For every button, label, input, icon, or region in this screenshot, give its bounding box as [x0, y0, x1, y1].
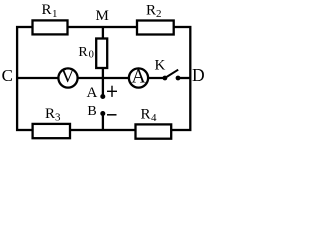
- minus sign: [107, 114, 117, 116]
- svg-text:R: R: [141, 106, 151, 122]
- svg-text:R: R: [45, 106, 55, 122]
- svg-text:1: 1: [52, 8, 58, 20]
- ammeter A: [129, 68, 148, 87]
- svg-text:R: R: [42, 2, 52, 18]
- wire M down to node A: [102, 27, 104, 97]
- svg-text:K: K: [155, 58, 166, 74]
- resistor R2: [137, 21, 174, 35]
- svg-text:2: 2: [156, 8, 162, 20]
- node B: [100, 111, 105, 116]
- resistor R3: [33, 124, 70, 138]
- svg-text:0: 0: [89, 50, 94, 61]
- svg-text:A: A: [87, 85, 98, 101]
- resistor R4: [136, 124, 172, 138]
- svg-text:M: M: [96, 8, 109, 24]
- node A: [100, 94, 105, 99]
- wire outer frame: [17, 27, 190, 130]
- wire C to switch left contact: [17, 77, 165, 79]
- svg-text:3: 3: [55, 112, 61, 124]
- svg-text:R: R: [146, 3, 156, 19]
- svg-text:B: B: [87, 104, 96, 119]
- plus sign: [107, 90, 117, 92]
- wire node B down to bottom: [102, 114, 104, 131]
- resistor R1: [33, 20, 68, 34]
- svg-text:C: C: [2, 66, 13, 85]
- svg-text:D: D: [192, 65, 205, 85]
- voltmeter V: [58, 68, 77, 87]
- svg-text:R: R: [78, 45, 88, 60]
- svg-text:A: A: [131, 66, 146, 88]
- switch K: [163, 76, 168, 81]
- wire switch right contact to D: [178, 77, 190, 79]
- resistor R0: [96, 39, 107, 69]
- svg-text:V: V: [61, 66, 75, 87]
- svg-text:4: 4: [151, 112, 157, 124]
